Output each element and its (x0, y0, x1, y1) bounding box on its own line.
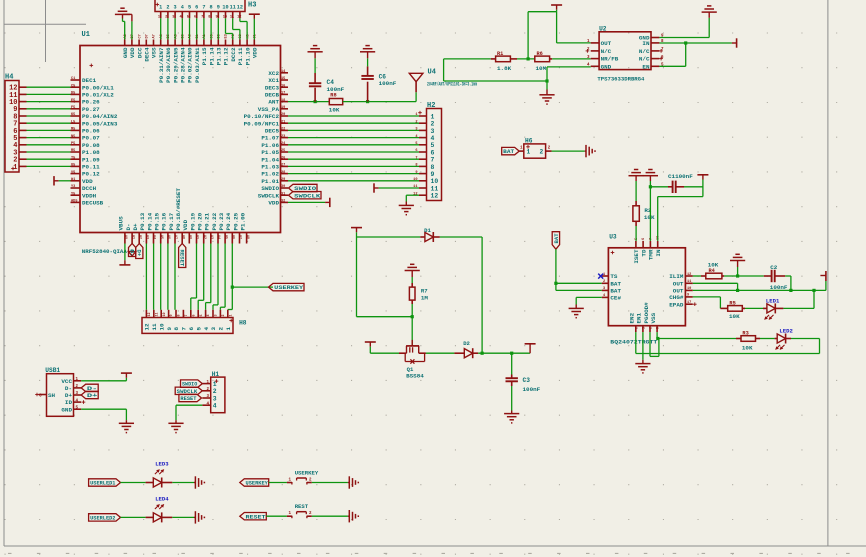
svg-text:P0.17: P0.17 (168, 212, 175, 230)
svg-text:A3: A3 (146, 235, 150, 239)
svg-text:10: 10 (163, 312, 167, 316)
svg-text:USERLED1: USERLED1 (90, 481, 115, 487)
svg-text:OUT: OUT (601, 40, 612, 47)
svg-text:D2: D2 (463, 340, 470, 347)
svg-text:7: 7 (201, 16, 203, 20)
svg-text:P1.09: P1.09 (82, 156, 100, 163)
svg-text:D5: D5 (71, 92, 75, 96)
svg-text:DEC1: DEC1 (82, 77, 97, 84)
svg-text:LED2: LED2 (779, 328, 793, 335)
svg-text:1: 1 (225, 327, 232, 331)
svg-text:IN: IN (655, 249, 662, 257)
svg-text:D+: D+ (87, 392, 98, 399)
svg-text:A3: A3 (210, 235, 214, 239)
svg-text:1: 1 (431, 113, 435, 120)
svg-text:T5: T5 (71, 156, 75, 160)
svg-text:10M: 10M (536, 65, 547, 72)
svg-text:H4: H4 (5, 74, 13, 82)
svg-text:A4: A4 (153, 235, 157, 239)
svg-text:1M: 1M (421, 295, 429, 302)
svg-text:BSS84: BSS84 (406, 373, 424, 380)
svg-text:30: 30 (281, 185, 285, 189)
svg-text:DCC2: DCC2 (230, 47, 237, 62)
svg-text:3: 3 (603, 287, 605, 291)
svg-text:ILIM: ILIM (669, 273, 684, 280)
svg-text:P0.03/AIN1: P0.03/AIN1 (194, 47, 201, 83)
svg-text:3: 3 (213, 395, 217, 402)
svg-text:9: 9 (217, 5, 220, 11)
svg-text:C3: C3 (523, 377, 531, 384)
svg-text:8: 8 (431, 164, 435, 171)
svg-text:9: 9 (170, 314, 174, 316)
svg-text:DEC3: DEC3 (265, 84, 280, 91)
svg-text:8: 8 (173, 327, 180, 331)
svg-text:P1.13: P1.13 (216, 47, 223, 65)
svg-text:10K: 10K (644, 214, 655, 221)
svg-text:2: 2 (222, 314, 226, 316)
svg-text:VSS: VSS (650, 312, 657, 323)
svg-text:P1.12: P1.12 (223, 47, 230, 65)
svg-text:1.8K: 1.8K (497, 65, 512, 72)
svg-text:4: 4 (181, 5, 184, 11)
svg-text:BQ24072TRGTT: BQ24072TRGTT (610, 338, 658, 345)
svg-text:VDDH: VDDH (82, 192, 97, 199)
svg-text:P0.23: P0.23 (218, 212, 225, 230)
svg-text:1: 1 (229, 314, 233, 316)
svg-text:P0.31/AIN7: P0.31/AIN7 (158, 47, 165, 83)
svg-text:EN: EN (642, 63, 650, 70)
svg-text:12: 12 (144, 323, 151, 331)
svg-text:7: 7 (431, 157, 435, 164)
svg-text:1: 1 (527, 149, 531, 156)
svg-text:TPS73633DRBRG4: TPS73633DRBRG4 (597, 76, 644, 83)
svg-text:A1: A1 (131, 235, 135, 239)
svg-text:10K: 10K (742, 345, 753, 352)
svg-text:P0.27: P0.27 (82, 106, 100, 113)
svg-text:21: 21 (281, 120, 285, 124)
svg-text:2: 2 (603, 280, 605, 284)
svg-text:C4: C4 (327, 79, 335, 86)
svg-text:18: 18 (281, 99, 285, 103)
svg-text:N/C: N/C (639, 56, 650, 63)
svg-text:GND: GND (61, 406, 72, 413)
svg-text:F5: F5 (71, 106, 75, 110)
svg-text:R4: R4 (709, 268, 716, 274)
svg-text:A5: A5 (224, 235, 228, 239)
svg-text:P0.05/AIN3: P0.05/AIN3 (82, 120, 118, 127)
svg-text:H8: H8 (239, 320, 247, 327)
svg-text:EN2: EN2 (629, 312, 636, 323)
svg-text:7: 7 (647, 327, 651, 329)
svg-text:W1: W1 (71, 178, 75, 182)
svg-text:P0.19: P0.19 (189, 212, 196, 230)
svg-text:H2: H2 (427, 102, 435, 110)
svg-text:D+: D+ (136, 250, 143, 257)
svg-text:H1: H1 (212, 371, 220, 378)
svg-text:VDD: VDD (268, 200, 279, 207)
svg-text:10: 10 (158, 323, 165, 331)
svg-text:USERLED2: USERLED2 (90, 516, 115, 522)
svg-text:R1: R1 (497, 51, 503, 57)
svg-text:NR/FB: NR/FB (601, 56, 619, 63)
svg-text:100nF: 100nF (327, 86, 345, 93)
svg-text:P0.06: P0.06 (82, 128, 100, 135)
svg-text:3: 3 (215, 314, 219, 316)
svg-text:DCCH: DCCH (82, 185, 97, 192)
svg-text:A7: A7 (239, 235, 243, 239)
svg-text:VDD: VDD (252, 47, 259, 58)
svg-text:P0.22: P0.22 (211, 212, 218, 230)
svg-text:Y3: Y3 (71, 185, 75, 189)
svg-text:31: 31 (281, 192, 285, 196)
svg-text:C7: C7 (138, 34, 142, 38)
svg-text:10K: 10K (729, 313, 740, 320)
svg-text:12: 12 (237, 5, 243, 11)
svg-text:EPAD: EPAD (669, 301, 684, 308)
svg-text:P1.04: P1.04 (261, 156, 279, 163)
svg-text:XC1: XC1 (268, 77, 279, 84)
svg-text:A7: A7 (174, 235, 178, 239)
svg-text:2: 2 (166, 5, 169, 11)
svg-text:P1.02: P1.02 (261, 171, 279, 178)
svg-text:SWDCLK: SWDCLK (258, 192, 280, 199)
svg-text:ID: ID (65, 399, 73, 406)
svg-text:P5: P5 (71, 142, 75, 146)
svg-text:RESET: RESET (246, 514, 267, 520)
svg-text:A2: A2 (203, 235, 207, 239)
svg-text:E3: E3 (225, 34, 229, 38)
svg-text:SWDIO: SWDIO (261, 185, 279, 192)
svg-text:R3: R3 (742, 331, 748, 337)
svg-text:E5: E5 (71, 99, 75, 103)
svg-text:H6: H6 (525, 137, 533, 144)
svg-text:EN1: EN1 (636, 312, 643, 323)
svg-text:1: 1 (13, 164, 17, 172)
svg-text:USERKEY: USERKEY (274, 284, 304, 291)
svg-text:P1.11: P1.11 (237, 47, 244, 65)
svg-text:RESET: RESET (180, 396, 197, 402)
svg-text:H3: H3 (248, 2, 256, 10)
svg-text:U1: U1 (82, 31, 90, 39)
svg-text:A8: A8 (181, 235, 185, 239)
svg-text:BAT: BAT (610, 288, 621, 295)
svg-text:2: 2 (218, 327, 225, 331)
svg-text:4: 4 (431, 135, 435, 142)
svg-text:A6: A6 (167, 235, 171, 239)
svg-text:22: 22 (281, 128, 285, 132)
svg-text:P0.25: P0.25 (232, 212, 239, 230)
svg-text:VDD: VDD (129, 47, 136, 58)
svg-text:DEC5: DEC5 (265, 128, 280, 135)
svg-text:N/C: N/C (639, 48, 650, 55)
svg-text:2: 2 (431, 121, 435, 128)
svg-text:A6: A6 (232, 235, 236, 239)
svg-text:K5: K5 (71, 113, 75, 117)
svg-text:9: 9 (431, 171, 435, 178)
svg-text:DECUSB: DECUSB (82, 200, 104, 207)
svg-text:ANT: ANT (268, 99, 279, 106)
svg-text:AD5: AD5 (71, 200, 77, 204)
svg-text:D7: D7 (146, 34, 150, 38)
svg-text:NRF52840-QIAA-R: NRF52840-QIAA-R (82, 248, 134, 255)
svg-text:A0: A0 (189, 235, 193, 239)
svg-text:TD: TD (640, 249, 647, 257)
svg-text:DECB: DECB (265, 92, 280, 99)
svg-text:P1.00: P1.00 (239, 212, 246, 230)
svg-text:SWDCLK: SWDCLK (294, 192, 321, 199)
svg-text:1: 1 (158, 16, 160, 20)
svg-text:P1.07: P1.07 (261, 135, 279, 142)
svg-text:6: 6 (192, 314, 196, 316)
svg-text:3: 3 (210, 327, 217, 331)
svg-text:26: 26 (281, 156, 285, 160)
svg-text:CHG#: CHG# (669, 294, 684, 301)
svg-text:9: 9 (216, 16, 218, 20)
svg-text:9: 9 (166, 327, 173, 331)
svg-text:USB1: USB1 (45, 367, 60, 374)
svg-text:P0.10/NFC2: P0.10/NFC2 (244, 113, 280, 120)
svg-text:11: 11 (230, 5, 236, 11)
svg-text:R7: R7 (421, 287, 428, 294)
svg-text:5: 5 (187, 16, 189, 20)
svg-text:8: 8 (208, 16, 210, 20)
svg-text:BAT: BAT (610, 280, 621, 287)
svg-text:29: 29 (281, 178, 285, 182)
svg-text:12: 12 (687, 273, 691, 277)
svg-text:A0: A0 (124, 235, 128, 239)
svg-text:TS: TS (610, 273, 618, 280)
svg-text:VBUS: VBUS (118, 216, 125, 231)
svg-text:11: 11 (151, 323, 158, 331)
svg-text:8: 8 (178, 314, 182, 316)
svg-text:USERKEY: USERKEY (246, 481, 269, 487)
svg-text:VDD: VDD (82, 178, 93, 185)
svg-text:VSS: VSS (151, 47, 158, 58)
svg-text:A8: A8 (246, 235, 250, 239)
svg-text:6: 6 (194, 16, 196, 20)
svg-text:PGOOD#: PGOOD# (643, 302, 650, 324)
svg-text:5: 5 (195, 327, 202, 331)
svg-text:1: 1 (159, 5, 162, 11)
svg-text:6: 6 (195, 5, 198, 11)
svg-text:P0.15: P0.15 (154, 212, 161, 230)
svg-text:P1.01: P1.01 (261, 178, 279, 185)
svg-text:27: 27 (281, 164, 285, 168)
svg-text:2: 2 (633, 327, 637, 329)
svg-text:7: 7 (185, 314, 189, 316)
svg-text:100nF: 100nF (523, 386, 541, 393)
svg-text:XC2: XC2 (268, 70, 279, 77)
svg-text:ISET: ISET (633, 249, 640, 264)
svg-text:4: 4 (203, 327, 210, 331)
svg-text:P0.20: P0.20 (197, 212, 204, 230)
svg-text:2: 2 (540, 149, 544, 156)
svg-text:TMR: TMR (648, 249, 655, 260)
svg-text:17: 17 (281, 92, 285, 96)
svg-text:OUT: OUT (673, 280, 684, 287)
svg-text:LED3: LED3 (155, 461, 169, 468)
svg-text:R6: R6 (537, 51, 543, 57)
svg-text:2: 2 (165, 16, 167, 20)
svg-text:19: 19 (281, 106, 285, 110)
svg-text:4: 4 (207, 314, 211, 316)
svg-text:M5: M5 (71, 128, 75, 132)
svg-text:7: 7 (202, 5, 205, 11)
svg-text:DEC4: DEC4 (144, 47, 151, 62)
svg-text:P1.15: P1.15 (201, 47, 208, 65)
svg-text:8: 8 (654, 327, 658, 329)
svg-text:P1.03: P1.03 (261, 164, 279, 171)
svg-text:RESET: RESET (178, 250, 185, 267)
svg-text:REST: REST (295, 503, 309, 510)
svg-text:U2: U2 (599, 25, 607, 32)
svg-text:5: 5 (640, 327, 644, 329)
svg-text:10K: 10K (329, 106, 340, 113)
svg-text:P1.06: P1.06 (261, 142, 279, 149)
svg-text:P0.30/AIN6: P0.30/AIN6 (165, 47, 172, 83)
svg-text:R5: R5 (71, 149, 75, 153)
svg-text:C1: C1 (71, 77, 75, 81)
svg-text:7: 7 (181, 327, 188, 331)
svg-text:3: 3 (431, 128, 435, 135)
svg-text:DCC: DCC (136, 47, 143, 58)
svg-text:6: 6 (642, 238, 646, 240)
svg-text:12: 12 (431, 193, 439, 200)
svg-text:1: 1 (603, 273, 605, 277)
svg-text:8: 8 (210, 5, 213, 11)
svg-text:3: 3 (172, 16, 174, 20)
svg-text:D+: D+ (132, 223, 139, 231)
svg-text:P1.08: P1.08 (82, 149, 100, 156)
svg-text:6: 6 (188, 327, 195, 331)
svg-text:P0.02/AIN0: P0.02/AIN0 (187, 47, 194, 83)
svg-text:11: 11 (687, 280, 691, 284)
svg-text:32: 32 (281, 200, 285, 204)
svg-text:BAT: BAT (503, 148, 515, 155)
svg-text:15: 15 (281, 77, 285, 81)
svg-text:P0.29/AIN5: P0.29/AIN5 (172, 47, 179, 83)
svg-text:U5: U5 (71, 164, 75, 168)
svg-text:P0.24: P0.24 (225, 212, 232, 230)
svg-text:U3: U3 (609, 233, 617, 240)
svg-text:23: 23 (281, 135, 285, 139)
svg-text:P0.08: P0.08 (82, 142, 100, 149)
svg-text:R8: R8 (330, 93, 336, 99)
svg-text:VSS_PA: VSS_PA (258, 106, 280, 113)
svg-text:P0.04/AIN2: P0.04/AIN2 (82, 113, 118, 120)
svg-text:SH: SH (48, 392, 56, 399)
svg-text:10: 10 (687, 287, 691, 291)
svg-text:U4: U4 (428, 69, 436, 77)
svg-text:A5: A5 (160, 235, 164, 239)
svg-text:BAT: BAT (553, 233, 560, 244)
svg-text:A7: A7 (153, 34, 157, 38)
svg-text:100nF: 100nF (379, 80, 397, 87)
svg-text:17: 17 (687, 301, 691, 305)
svg-text:LED4: LED4 (155, 495, 169, 502)
svg-text:D1: D1 (424, 227, 431, 234)
svg-text:2: 2 (213, 388, 217, 395)
svg-text:10: 10 (431, 178, 439, 185)
svg-text:A4: A4 (217, 235, 221, 239)
svg-text:12: 12 (148, 312, 152, 316)
svg-text:11: 11 (155, 312, 159, 316)
svg-text:5: 5 (200, 314, 204, 316)
svg-text:P0.12: P0.12 (82, 171, 100, 178)
svg-text:D-: D- (128, 250, 135, 257)
svg-text:C2: C2 (770, 264, 778, 271)
svg-text:CE#: CE# (610, 295, 621, 302)
svg-text:P1.10: P1.10 (244, 47, 251, 65)
svg-text:P0.28/AIN4: P0.28/AIN4 (180, 47, 187, 83)
svg-text:P0.21: P0.21 (204, 212, 211, 230)
svg-text:V5: V5 (71, 171, 75, 175)
svg-text:P1.14: P1.14 (208, 47, 215, 65)
svg-text:LED1: LED1 (766, 298, 780, 305)
svg-text:VCC: VCC (61, 378, 72, 385)
svg-text:N/C: N/C (601, 48, 612, 55)
svg-text:P0.09/NFC1: P0.09/NFC1 (244, 120, 280, 127)
svg-text:P0.26: P0.26 (82, 99, 100, 106)
svg-text:P0.14: P0.14 (146, 212, 153, 230)
svg-text:L5: L5 (71, 120, 75, 124)
svg-text:P0.16: P0.16 (161, 212, 168, 230)
svg-text:5: 5 (431, 142, 435, 149)
svg-text:10: 10 (222, 5, 228, 11)
svg-text:A1: A1 (196, 235, 200, 239)
svg-text:P0.01/XL2: P0.01/XL2 (82, 92, 114, 99)
svg-text:P0.13: P0.13 (139, 212, 146, 230)
svg-text:5: 5 (188, 5, 191, 11)
svg-text:9: 9 (687, 294, 689, 298)
svg-text:USERKEY: USERKEY (295, 469, 319, 476)
svg-text:6: 6 (431, 149, 435, 156)
svg-text:20: 20 (281, 113, 285, 117)
svg-text:IN: IN (642, 40, 650, 47)
svg-text:D-: D- (65, 385, 72, 392)
svg-text:GND: GND (601, 63, 612, 70)
svg-text:25: 25 (281, 149, 285, 153)
svg-text:GND: GND (122, 47, 129, 58)
svg-text:P0.00/XL1: P0.00/XL1 (82, 84, 114, 91)
svg-text:Y5: Y5 (71, 192, 75, 196)
svg-text:28: 28 (281, 171, 285, 175)
svg-text:3: 3 (174, 5, 177, 11)
svg-text:D-: D- (125, 223, 132, 230)
svg-text:VDD: VDD (182, 219, 189, 230)
svg-text:R5: R5 (729, 300, 735, 306)
svg-text:C1100nF: C1100nF (668, 173, 693, 180)
svg-text:N5: N5 (71, 135, 75, 139)
svg-text:C5: C5 (71, 84, 75, 88)
svg-text:16: 16 (281, 84, 285, 88)
svg-text:P0.18/#RESET: P0.18/#RESET (175, 188, 182, 231)
svg-text:D+: D+ (65, 392, 73, 399)
svg-text:P0.07: P0.07 (82, 135, 100, 142)
svg-text:P0.11: P0.11 (82, 164, 100, 171)
svg-text:11: 11 (431, 185, 439, 192)
svg-text:P1.05: P1.05 (261, 149, 279, 156)
svg-text:A2: A2 (138, 235, 142, 239)
svg-text:4: 4 (213, 403, 217, 410)
